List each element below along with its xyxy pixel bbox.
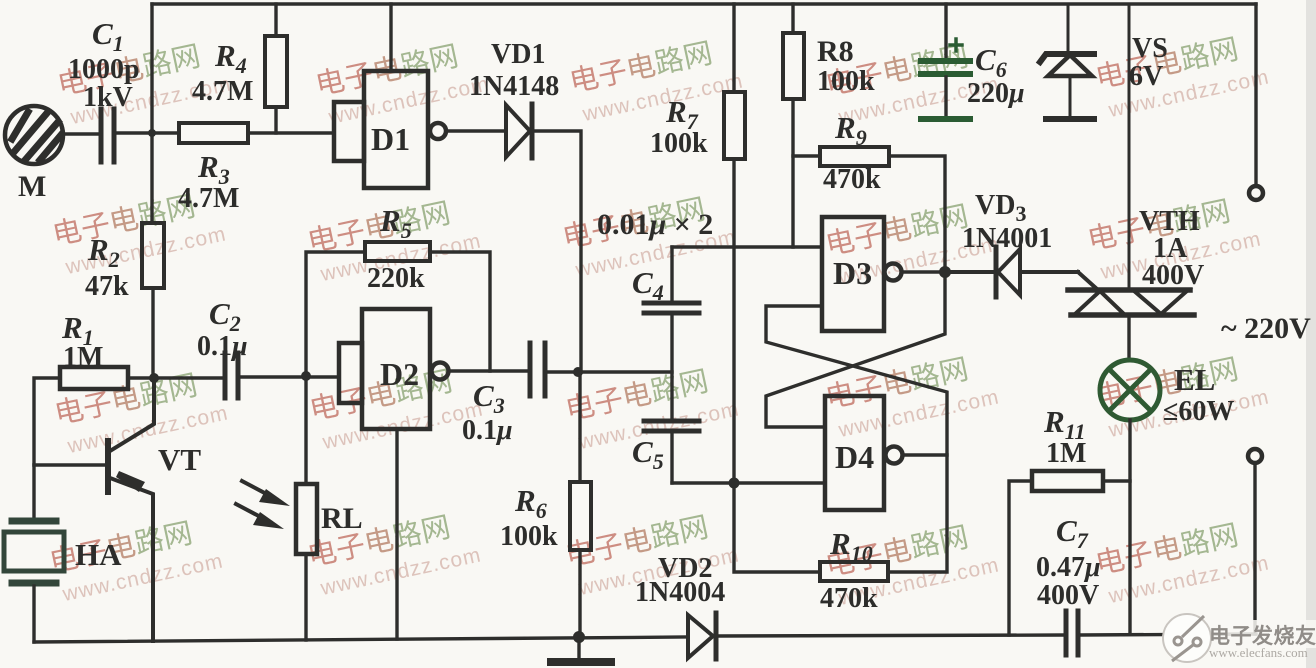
resistor R5 xyxy=(306,242,490,375)
svg-text:1M: 1M xyxy=(63,342,103,373)
resistor R6 xyxy=(570,482,591,550)
svg-text:1N4148: 1N4148 xyxy=(469,71,559,102)
watermark tile 11 xyxy=(52,363,231,459)
wire: ground rail C7 to right end xyxy=(1080,634,1256,635)
watermark tile 2 xyxy=(313,34,492,130)
watermark tile 17 xyxy=(305,505,484,601)
wire: R3 to D1 input xyxy=(248,131,334,134)
svg-text:400V: 400V xyxy=(1037,580,1099,611)
watermark tile 19 xyxy=(823,515,1002,611)
capacitor C6 xyxy=(921,4,970,119)
wire: ground rail VD2 to C7 xyxy=(718,635,1064,636)
wire: R1 left down to HA xyxy=(34,378,60,518)
wire: D3 out to node xyxy=(902,270,945,273)
elecfans logo xyxy=(1163,614,1316,662)
wire: D2 bottom to ground rail xyxy=(395,429,398,639)
svg-text:470k: 470k xyxy=(823,164,881,195)
svg-text:D2: D2 xyxy=(380,356,419,392)
svg-text:D4: D4 xyxy=(835,439,874,475)
node: C2/R5/RL junction xyxy=(301,371,311,381)
node: C5/R10/D4 junction xyxy=(729,478,740,489)
svg-text:0.1μ: 0.1μ xyxy=(197,331,248,362)
watermark tile 7 xyxy=(305,191,484,287)
svg-text:RL: RL xyxy=(321,502,363,535)
wire: C4 to C5 xyxy=(670,315,673,419)
diode VD3 xyxy=(945,247,1078,297)
svg-text:100k: 100k xyxy=(650,128,708,159)
wire: rail to D1 top xyxy=(389,4,392,71)
svg-text:R8: R8 xyxy=(817,35,854,68)
svg-text:VD1: VD1 xyxy=(491,39,545,70)
svg-text:400V: 400V xyxy=(1142,260,1204,291)
gate D3 xyxy=(822,217,902,331)
svg-text:1N4004: 1N4004 xyxy=(635,577,725,608)
watermark tile 9 xyxy=(823,194,1002,290)
watermark tile 8 xyxy=(560,187,739,283)
watermark tile 6 xyxy=(50,184,229,280)
node: R1 collector junction xyxy=(149,373,159,383)
wire: node down to R6 xyxy=(578,372,581,482)
svg-text:220μ: 220μ xyxy=(967,78,1025,109)
resistor R7 xyxy=(724,4,745,483)
watermark tile 12 xyxy=(307,359,486,455)
wire: HA bottom to ground rail xyxy=(32,586,35,642)
watermark tile 4 xyxy=(823,34,1002,130)
svg-text:~ 220V: ~ 220V xyxy=(1221,312,1311,345)
wire: C2 to D2 input xyxy=(238,375,339,378)
node: D3 output junction xyxy=(939,266,951,278)
svg-text:VS: VS xyxy=(1132,33,1168,64)
capacitor C2 xyxy=(225,353,238,398)
wire: top supply rail xyxy=(152,2,1256,5)
capacitor C7 xyxy=(1066,611,1078,655)
svg-text:≤60W: ≤60W xyxy=(1163,396,1234,427)
svg-text:0.47μ: 0.47μ xyxy=(1036,552,1101,583)
node: C3/R6/VD1 junction xyxy=(573,367,583,377)
capacitor C3 xyxy=(530,343,545,396)
svg-text:220k: 220k xyxy=(367,263,425,294)
svg-text:1kV: 1kV xyxy=(83,82,133,113)
wire: C5 bottom to D4 input xyxy=(672,481,825,484)
wire: VD1 to C3 node vertical xyxy=(534,131,581,372)
node: mic bias junction xyxy=(148,129,156,137)
watermark tile 18 xyxy=(563,505,742,601)
resistor R9 xyxy=(793,147,945,272)
capacitor C4 xyxy=(644,247,699,313)
wire: D3out cross-couple to D4 input xyxy=(766,278,945,427)
terminal lower xyxy=(1248,449,1262,634)
wire: R2 bottom to collector node xyxy=(151,288,154,377)
transistor VT xyxy=(34,378,154,641)
svg-text:4.7M: 4.7M xyxy=(178,183,239,214)
svg-text:1M: 1M xyxy=(1046,438,1086,469)
lamp EL xyxy=(1100,360,1160,420)
triac VTH xyxy=(1068,4,1194,315)
wire: R6 to ground rail xyxy=(578,550,581,637)
svg-text:1000p: 1000p xyxy=(68,54,140,85)
svg-text:M: M xyxy=(18,170,46,203)
watermark tile 20 xyxy=(1093,513,1272,609)
svg-text:100k: 100k xyxy=(817,66,875,97)
wire: C1 to R3 xyxy=(117,131,179,134)
svg-text:D1: D1 xyxy=(371,121,410,157)
watermark tile 3 xyxy=(567,31,746,127)
svg-text:1N4001: 1N4001 xyxy=(962,223,1052,254)
gate D1 xyxy=(334,71,446,188)
watermark tile 10 xyxy=(1085,189,1264,285)
capacitor C5 xyxy=(644,421,699,483)
resistor R8 xyxy=(783,4,804,247)
wire: node to C2 xyxy=(153,376,225,379)
resistor R2 xyxy=(142,223,164,288)
gate D4 xyxy=(825,396,903,510)
wire: lamp to ground rail xyxy=(1128,420,1131,634)
light arrows at RL xyxy=(236,481,290,529)
node: ground junction xyxy=(573,631,585,643)
watermark tile 13 xyxy=(563,359,742,455)
resistor R1 xyxy=(60,367,128,389)
capacitor C1 xyxy=(101,109,114,162)
svg-text:6V: 6V xyxy=(1129,61,1163,92)
svg-text:0.1μ: 0.1μ xyxy=(462,415,513,446)
resistor R4 xyxy=(265,4,287,133)
svg-text:470k: 470k xyxy=(820,583,878,614)
resistor R11 xyxy=(1009,471,1130,635)
microphone M xyxy=(5,106,63,164)
wire: bottom ground rail left of VD2 xyxy=(34,637,687,642)
zener VS xyxy=(1040,4,1094,119)
wire: C3 to R6 node xyxy=(547,370,578,373)
wire: C3 node to mid caps xyxy=(581,370,672,373)
diode VD2 xyxy=(688,613,716,659)
wire: D1 out to VD1 xyxy=(446,129,506,132)
svg-text:VT: VT xyxy=(158,442,201,477)
svg-text:100k: 100k xyxy=(500,521,558,552)
wire: R1 right to node xyxy=(128,376,153,379)
watermark tile 1 xyxy=(55,34,234,130)
svg-text:D3: D3 xyxy=(833,255,872,291)
watermark tile 14 xyxy=(823,347,1002,443)
wire: mic to C1 xyxy=(63,132,97,135)
buzzer HA xyxy=(4,521,64,583)
diode VD1 xyxy=(506,104,532,158)
wire: triac to lamp xyxy=(1127,317,1130,360)
watermark tile 15 xyxy=(1093,347,1272,443)
photoresistor RL xyxy=(296,377,317,640)
ground symbol xyxy=(551,637,611,662)
wire: left vertical from rail to R2 top xyxy=(150,4,153,223)
gate D2 xyxy=(339,309,449,429)
svg-text:HA: HA xyxy=(75,537,122,572)
wire: D2 out to C3 xyxy=(449,369,528,372)
watermark tile 5 xyxy=(1093,27,1272,123)
resistor R3 xyxy=(179,123,248,143)
wire: oscillator input rail y247 xyxy=(672,245,822,248)
wire: D4out cross-couple to D3 input xyxy=(766,306,947,455)
svg-text:www.elecfans.com: www.elecfans.com xyxy=(1209,645,1308,660)
watermark tile 16 xyxy=(47,511,226,607)
resistor R10 xyxy=(734,455,947,581)
svg-text:0.01μ × 2: 0.01μ × 2 xyxy=(597,208,713,241)
svg-text:4.7M: 4.7M xyxy=(192,76,253,107)
svg-text:47k: 47k xyxy=(85,271,129,302)
svg-text:EL: EL xyxy=(1174,362,1215,397)
terminal upper xyxy=(1249,4,1263,200)
